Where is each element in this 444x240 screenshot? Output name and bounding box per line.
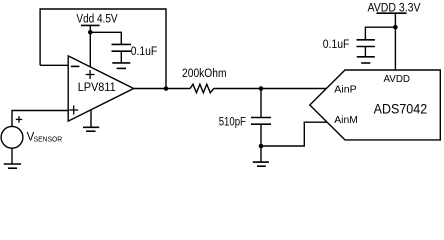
wire Vdd rail to op-amp supply pin [89,25,91,67]
wire inverting input [40,64,68,66]
op-amp non-inverting input + label [69,105,78,114]
resistor R1 200kOhm zigzag [190,84,214,93]
op-amp U1 LPV811 triangle [68,56,133,121]
svg-text:510pF: 510pF [219,116,246,128]
ground (C1) [112,63,130,69]
ground (op-amp) [83,127,99,131]
wire source top to non-inverting input [12,111,68,127]
svg-text:AinM: AinM [334,114,358,126]
svg-text:AinP: AinP [334,84,356,96]
wire C2 bottom to ground [260,124,262,162]
node C2 ground junction dot [259,144,264,149]
svg-text:AVDD: AVDD [384,73,411,85]
capacitor C1 0.1uF plates [112,44,132,51]
ground (source) [4,164,21,168]
svg-text:200kOhm: 200kOhm [182,68,227,80]
wire AVDD to bypass cap C3 [365,27,395,40]
ground (C2) [253,162,269,166]
ground (C3) [357,57,375,63]
wire feedback loop output to inverting input [40,9,166,89]
node Vdd junction dot [88,30,93,35]
capacitor C2 510pF plates [251,118,271,125]
op-amp inverting input - label [71,65,80,67]
wire AVDD rail to ADC AVDD pin [394,13,396,70]
node output junction dot [164,86,169,91]
wire op-amp output to resistor R1 [134,88,191,90]
VSENSOR polarity + marker [16,116,22,122]
wire AinM return path [261,122,327,146]
Vdd rail bar [81,24,100,26]
node AVDD junction dot [393,25,398,30]
wire Vdd to bypass cap C1 [90,32,121,44]
ADC U2 ADS7042 body [310,70,441,140]
svg-text:SENSOR: SENSOR [34,137,63,144]
svg-text:LPV811: LPV811 [78,80,116,94]
wire C1 to ground [120,51,122,63]
capacitor C3 0.1uF plates [357,40,375,47]
label VSENSOR [27,132,63,144]
wire C3 to ground [364,47,366,57]
node filter junction dot [259,86,264,91]
wire resistor to ADC AinP [214,88,327,90]
svg-text:0.1uF: 0.1uF [131,46,158,58]
svg-text:0.1uF: 0.1uF [323,39,350,51]
wire junction to capacitor C2 [260,89,262,118]
svg-text:ADS7042: ADS7042 [374,102,428,117]
wire source bottom to ground [11,148,13,164]
voltage source VSENSOR [1,126,23,148]
op-amp positive supply + label [86,70,95,79]
AVDD rail bar [377,12,407,14]
wire op-amp negative supply to ground [90,109,92,127]
svg-text:Vdd 4.5V: Vdd 4.5V [76,14,117,26]
